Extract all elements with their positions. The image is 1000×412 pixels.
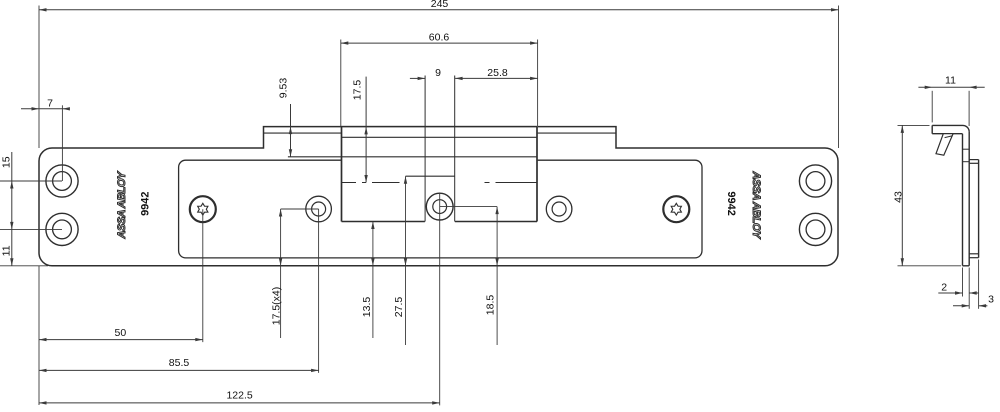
side view lip left edge [931,125,933,133]
dim 43 line [901,125,903,265]
left end hole top outer [46,165,78,197]
side view joint tick lower [963,161,970,163]
dim 50 line [39,339,203,341]
slot recess bottom line [406,175,455,177]
dim 3 line right [979,305,988,307]
svg-text:50: 50 [115,327,127,339]
dim 9.53 line [290,104,292,157]
svg-text:9942: 9942 [725,191,737,215]
dim 50 right extension [202,209,204,342]
bottom hole center extension [0,228,62,230]
dim 18.5 line [496,207,498,345]
svg-text:9.53: 9.53 [278,78,290,99]
dim 17.5x4 line [280,209,282,338]
left torx screw [190,196,216,222]
svg-text:11: 11 [1,245,13,256]
dim 15-11 line [11,152,13,266]
side view back face [968,132,970,266]
svg-text:18.5: 18.5 [485,295,497,316]
dim 27.5 line [405,176,407,345]
dim 245 left extension [38,6,40,149]
svg-text:ASSA ABLOY: ASSA ABLOY [116,170,128,239]
side view lip top and right arc [932,125,969,131]
tab bend line [945,136,952,138]
back plate bottom edge [969,257,978,259]
keeper body fill [341,126,538,222]
svg-text:15: 15 [1,156,13,168]
keeper bottom left segment [342,221,425,223]
side view bottom edge [963,265,970,267]
left end hole top inner [53,172,72,191]
svg-text:9942: 9942 [139,191,151,215]
dim 17.5x4 extension [281,208,319,210]
dim 25.8 line [455,77,537,79]
centerline right segment [485,182,538,184]
dim 9 line [410,77,425,79]
dim 245 line [39,9,839,11]
keeper top line [342,136,538,138]
keeper bottom right segment [455,221,537,223]
svg-text:27.5: 27.5 [393,297,405,318]
central pin hole inner [433,200,447,214]
svg-text:122.5: 122.5 [226,389,252,401]
latch slot right edge [454,76,456,222]
plate bottom extension left [0,265,48,267]
svg-text:3: 3 [988,294,994,306]
dim 245 left extension lower [38,266,40,405]
svg-text:2: 2 [941,281,947,293]
right torx screw [663,196,689,222]
right mounting hole inner [552,202,566,216]
dim 85.5 line [39,369,319,371]
svg-text:7: 7 [47,97,53,109]
latch slot left edge [424,76,426,222]
keeper top edge [341,126,537,128]
right end hole bottom outer [799,213,831,245]
side view front face [962,134,964,266]
right mounting hole outer [546,196,572,222]
svg-text:17.5(x4): 17.5(x4) [270,287,282,326]
keeper right edge [536,127,538,222]
keeper left edge [341,127,343,222]
left end hole bottom inner [53,220,72,239]
svg-text:ASSA ABLOY: ASSA ABLOY [750,171,762,240]
svg-text:17.5: 17.5 [352,80,364,101]
svg-text:245: 245 [431,0,449,10]
side view lip bottom edge [932,133,962,135]
dim 11 side line [918,86,984,88]
dim 11 left extension [931,91,933,123]
dim 2 line left [938,292,962,294]
right end hole bottom inner [806,220,825,239]
central pin hole outer [426,193,453,220]
dim 13.5 line [372,222,374,339]
side view joint tick upper [963,148,970,150]
dim 60.6 right extension [537,40,539,127]
keeper face line [288,156,537,158]
centerline left segment [342,182,400,184]
top hole center extension [0,180,62,182]
back face lower extension [968,268,970,309]
dim 17.5 line [365,77,367,183]
bent locating tab [936,134,953,156]
dim 18.5 extension [440,206,497,208]
left mounting hole inner [312,202,326,216]
front face lower extension [962,268,964,297]
dim 85.5 right extension [318,209,320,373]
svg-text:43: 43 [893,191,905,203]
dim 43 bottom extension [898,265,962,267]
svg-text:25.8: 25.8 [487,67,508,79]
back plate top inner line [969,162,978,164]
right end hole top inner [806,172,825,191]
recessed inner plate [179,160,702,258]
dim 245 right extension [838,6,840,149]
svg-text:13.5: 13.5 [361,297,373,318]
dim 60.6 line [341,42,538,44]
back plate bottom inner line [969,253,978,255]
dim 11 right extension [968,91,970,126]
left mounting hole outer [306,196,332,222]
left end hole bottom outer [46,213,78,245]
dim 7 line [21,108,68,110]
right end hole top outer [799,165,831,197]
dim 2 line right [969,292,979,294]
lip strip lower edge [264,132,617,134]
svg-text:60.6: 60.6 [429,31,450,43]
svg-text:9: 9 [435,67,441,79]
dim 43 top extension [898,124,930,126]
dim 7 right extension [61,105,63,181]
faceplate outline with raised center tab [39,127,838,266]
back plate top edge [969,159,978,161]
back plate lower extension [978,260,980,309]
dim 3 line left [953,305,969,307]
svg-text:85.5: 85.5 [169,357,190,369]
dim 122.5 right extension [439,193,441,405]
svg-text:11: 11 [945,75,956,87]
dim 122.5 line [39,402,440,404]
dim 60.6 left extension [340,40,342,127]
back plate right face [978,160,980,258]
